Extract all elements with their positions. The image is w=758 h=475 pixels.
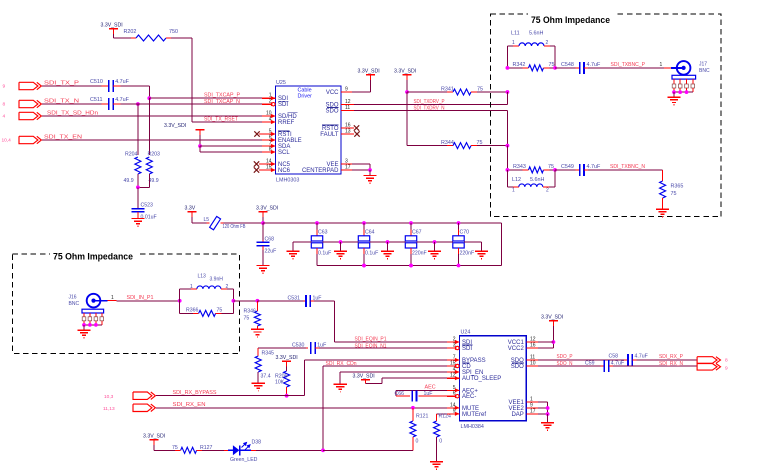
wire (538, 341, 553, 343)
svg-text:L13: L13 (198, 274, 207, 280)
svg-text:RREF: RREF (278, 120, 295, 126)
wire (171, 37, 192, 39)
pin 3 SDI-bar (447, 347, 460, 349)
svg-text:220nF: 220nF (412, 251, 427, 257)
svg-text:R343: R343 (513, 164, 526, 170)
pin 6 ENABLE (262, 139, 276, 141)
ground (131, 218, 144, 220)
svg-text:R346: R346 (244, 309, 257, 315)
capacitor C511 (102, 103, 109, 105)
svg-text:C523: C523 (141, 203, 154, 209)
svg-text:75: 75 (217, 308, 223, 314)
wire (224, 222, 264, 224)
svg-text:0.1uF: 0.1uF (365, 251, 378, 257)
ground (656, 208, 669, 210)
wire (588, 169, 663, 171)
svg-text:C510: C510 (90, 79, 103, 85)
wire (636, 359, 697, 361)
pin 11 SDO-bar (341, 110, 354, 112)
pin 3 VEE (341, 163, 352, 165)
svg-text:D38: D38 (252, 439, 262, 445)
svg-text:SDI_RX_P: SDI_RX_P (659, 354, 683, 360)
node rail C64 (362, 221, 366, 225)
resistor R124 0 ohm (437, 413, 447, 415)
pin 12 SDO (341, 104, 354, 106)
svg-text:SDI_RX_EN: SDI_RX_EN (173, 402, 206, 408)
svg-text:3: 3 (453, 343, 456, 349)
resistor R344 (407, 145, 447, 147)
svg-text:17: 17 (345, 165, 351, 171)
svg-text:0: 0 (416, 439, 419, 445)
wire (354, 104, 507, 106)
wire (538, 365, 600, 367)
capacitor C68 22uF (262, 223, 264, 240)
svg-text:C64: C64 (365, 230, 375, 236)
node R343 right (553, 168, 557, 172)
svg-text:49.9: 49.9 (149, 178, 159, 184)
svg-text:DAP: DAP (511, 412, 523, 418)
svg-text:13: 13 (345, 129, 351, 135)
node VCC1 (552, 340, 556, 344)
svg-text:3.3V_SDI: 3.3V_SDI (358, 69, 380, 75)
resistor R366 (179, 301, 181, 314)
pin 9 VCC (341, 91, 354, 93)
pin 4 RREF (262, 121, 276, 123)
ground rail start (292, 242, 294, 251)
svg-text:2: 2 (546, 188, 549, 194)
svg-text:4.7uF: 4.7uF (115, 79, 129, 85)
svg-text:J17: J17 (699, 62, 707, 68)
node rail C70 (457, 221, 461, 225)
J16 shield (82, 309, 104, 313)
svg-text:LMH0303: LMH0303 (276, 178, 299, 184)
svg-text:U25: U25 (276, 80, 286, 86)
node rail C67 (409, 221, 413, 225)
pin 8 SCL (262, 151, 276, 153)
node rail bottom (409, 264, 413, 268)
ground (667, 96, 680, 98)
pin 14 MUTE (447, 407, 460, 409)
svg-text:SDO: SDO (325, 109, 338, 115)
node TXDRV_P (506, 90, 510, 94)
node DAP (546, 412, 550, 416)
ground (256, 265, 269, 267)
svg-text:4: 4 (3, 114, 6, 120)
node R343 left (506, 168, 510, 172)
svg-text:220nF: 220nF (460, 251, 475, 257)
svg-text:BNC: BNC (69, 301, 80, 307)
node rail (261, 221, 265, 225)
node ground bus (386, 240, 390, 244)
svg-text:AEC-: AEC- (462, 394, 476, 400)
ground (252, 382, 265, 384)
svg-text:U24: U24 (461, 330, 471, 336)
svg-text:9: 9 (453, 408, 456, 414)
wire (114, 37, 132, 39)
node VEE (368, 168, 372, 172)
pin 15 CD-bar (447, 365, 460, 367)
svg-text:0: 0 (439, 439, 442, 445)
svg-text:12: 12 (450, 373, 456, 379)
pin 4 SPI_EN (447, 371, 460, 373)
wire rail (263, 222, 502, 224)
wire (156, 407, 447, 409)
capacitor C66 1uF (AEC) (396, 389, 447, 391)
capacitor C63 0.1uF (316, 223, 318, 230)
node rail bottom (362, 264, 366, 268)
svg-text:C66: C66 (395, 391, 405, 397)
node ground bus (339, 240, 343, 244)
svg-text:4.7uF: 4.7uF (635, 354, 648, 360)
svg-text:SDI_TXBNC_N: SDI_TXBNC_N (610, 164, 645, 170)
svg-text:AUTO_SLEEP: AUTO_SLEEP (462, 376, 501, 382)
svg-text:SCL: SCL (278, 150, 290, 156)
svg-text:Driver: Driver (298, 94, 313, 100)
wire (323, 365, 447, 367)
resistor R341 (407, 91, 447, 93)
svg-text:3.3V_SDI: 3.3V_SDI (143, 433, 165, 439)
wire (121, 85, 150, 87)
LED D38 Green_LED (224, 449, 228, 451)
svg-text:CENTERPAD: CENTERPAD (302, 168, 339, 174)
svg-text:15: 15 (266, 165, 272, 171)
node R divider (136, 185, 140, 189)
resistor R346 75 to ground (256, 301, 258, 311)
svg-text:4.7uF: 4.7uF (115, 97, 129, 103)
svg-text:SDI_TXCAP_P: SDI_TXCAP_P (204, 93, 240, 99)
pin 15 NC6 (259, 169, 276, 171)
ground (77, 329, 90, 331)
svg-text:R365: R365 (671, 184, 684, 190)
pin 2 SDI (447, 341, 460, 343)
resistor R203 (148, 98, 150, 155)
wire (200, 145, 262, 147)
wire (233, 300, 257, 302)
svg-text:750: 750 (169, 29, 178, 35)
wire (354, 110, 507, 112)
svg-text:R203: R203 (148, 152, 161, 158)
svg-text:3.3V_SDI: 3.3V_SDI (164, 123, 186, 129)
node MUTE/R121 (411, 406, 415, 410)
node L13 right (232, 299, 236, 303)
node SDI_TXCAP_P (147, 96, 151, 100)
capacitor C549 (555, 169, 576, 171)
svg-text:R121: R121 (416, 414, 429, 420)
pin 9 MUTEref (447, 413, 460, 415)
svg-text:4.7uF: 4.7uF (587, 164, 601, 170)
wire VEE to ground (352, 163, 370, 165)
svg-text:3.3V_SDI: 3.3V_SDI (353, 373, 375, 379)
svg-text:J16: J16 (69, 295, 77, 301)
svg-text:C548: C548 (561, 62, 574, 68)
svg-text:75: 75 (671, 191, 677, 197)
svg-text:3.3V_SDI: 3.3V_SDI (541, 315, 563, 321)
node R346 (256, 299, 260, 303)
wire (323, 449, 413, 451)
ground bus end (481, 242, 483, 251)
resistor R206 10K (284, 371, 290, 387)
wire (149, 97, 262, 99)
svg-text:SDI: SDI (462, 346, 472, 352)
wire (42, 85, 102, 87)
svg-text:3.9nH: 3.9nH (210, 277, 224, 283)
capacitor C67 220nF (410, 223, 412, 230)
svg-text:0.1uF: 0.1uF (318, 251, 331, 257)
svg-text:75: 75 (172, 445, 178, 451)
node L11/R342 right (553, 66, 557, 70)
svg-text:C63: C63 (318, 230, 328, 236)
svg-text:R124: R124 (439, 414, 452, 420)
svg-text:L5: L5 (204, 217, 210, 223)
75 Ohm Impedance output network boundary (490, 14, 721, 217)
svg-text:SDO: SDO (511, 364, 524, 370)
ground (251, 328, 264, 330)
pin 12 AUTO_SLEEP (447, 377, 460, 379)
svg-text:9: 9 (725, 365, 728, 371)
node TXDRV_N (506, 144, 510, 148)
capacitor C510 (102, 85, 109, 87)
pin 12 VCC1 (526, 341, 538, 343)
wire (588, 67, 664, 69)
capacitor C523 (137, 187, 139, 208)
wire (406, 92, 408, 146)
svg-text:C58: C58 (609, 354, 619, 360)
svg-text:11,13: 11,13 (103, 406, 115, 412)
svg-text:SDI_TXBNC_P: SDI_TXBNC_P (611, 62, 646, 68)
svg-text:22uF: 22uF (265, 249, 277, 255)
wire SPI_EN to ground (340, 371, 447, 373)
wire (117, 300, 180, 302)
ground (541, 422, 554, 424)
pin 1 VEE1 (526, 401, 538, 403)
svg-text:SPI_EN: SPI_EN (462, 370, 483, 376)
svg-text:3.3V_SDI: 3.3V_SDI (276, 355, 298, 361)
svg-text:SDO_P: SDO_P (557, 354, 573, 360)
pin 2 SDI-bar (262, 103, 276, 105)
svg-text:5.6nH: 5.6nH (530, 177, 544, 183)
svg-text:75 Ohm Impedance: 75 Ohm Impedance (53, 251, 133, 261)
wire (319, 347, 447, 349)
ground (434, 242, 436, 251)
svg-text:2: 2 (546, 40, 549, 46)
wire (257, 300, 303, 302)
wire (506, 146, 508, 170)
wire (42, 103, 102, 105)
svg-text:10K: 10K (275, 380, 285, 386)
svg-text:11: 11 (345, 105, 350, 111)
svg-text:C531: C531 (288, 296, 301, 302)
svg-text:49.9: 49.9 (124, 178, 134, 184)
svg-text:1: 1 (512, 40, 515, 46)
capacitor C64 0.1uF (363, 223, 365, 230)
svg-text:C549: C549 (561, 164, 574, 170)
pin 5 AEC+ (447, 389, 460, 391)
svg-text:R344: R344 (441, 140, 454, 146)
svg-text:SDI_EQIN_P1: SDI_EQIN_P1 (355, 337, 387, 343)
svg-text:C67: C67 (412, 230, 422, 236)
svg-text:R342: R342 (513, 62, 526, 68)
wire (613, 365, 697, 367)
svg-text:3.3V_SDI: 3.3V_SDI (101, 23, 123, 29)
svg-text:6: 6 (453, 391, 456, 397)
svg-text:4: 4 (453, 367, 456, 373)
wire (314, 300, 334, 302)
resistor R345 37.4 (257, 348, 259, 356)
svg-text:VCC2: VCC2 (508, 346, 525, 352)
svg-text:17: 17 (530, 409, 536, 415)
svg-text:75: 75 (548, 164, 554, 170)
svg-text:BNC: BNC (699, 68, 710, 74)
pin 7 SDA (262, 145, 276, 147)
J17 shield (672, 75, 696, 79)
svg-text:0.01uF: 0.01uF (141, 215, 157, 221)
pin 11 SDO (526, 359, 538, 361)
resistor R204 (137, 104, 139, 155)
svg-text:10,4: 10,4 (2, 138, 12, 144)
wire (192, 222, 207, 224)
pin 7 BYPASS (447, 359, 460, 361)
wire (154, 449, 175, 451)
wire (202, 449, 224, 451)
wire (42, 115, 262, 117)
node bias (405, 90, 409, 94)
node BYPASS (285, 394, 289, 398)
node L13 left (178, 299, 182, 303)
wire ground bus segments (305, 241, 311, 243)
node VEE2 (546, 406, 550, 410)
svg-text:37.4: 37.4 (261, 374, 271, 380)
node SDI_TXCAP_N (136, 102, 140, 106)
svg-text:LMH0384: LMH0384 (461, 424, 484, 430)
svg-text:9: 9 (345, 87, 348, 93)
svg-text:R366: R366 (186, 308, 199, 314)
svg-text:C59: C59 (585, 361, 595, 367)
ground (387, 242, 389, 251)
pin 14 NC5 (259, 163, 276, 165)
wire rail bottom (317, 265, 502, 267)
svg-text:10,3: 10,3 (104, 394, 114, 400)
svg-text:L12: L12 (512, 177, 521, 183)
pin 16 VCC2 (526, 347, 538, 349)
wire (42, 139, 262, 141)
resistor R121 0 ohm (412, 408, 414, 421)
wire (192, 121, 262, 123)
svg-text:Green_LED: Green_LED (230, 457, 258, 463)
svg-text:SDI_RX_BYPASS: SDI_RX_BYPASS (173, 390, 217, 396)
svg-text:8: 8 (725, 358, 728, 364)
wire (256, 449, 323, 451)
ground (430, 461, 443, 463)
svg-text:L11: L11 (511, 31, 520, 37)
svg-text:1: 1 (512, 188, 515, 194)
resistor R365 (662, 170, 664, 181)
pin 17 DAP (526, 413, 538, 415)
svg-text:10: 10 (530, 361, 536, 367)
svg-text:R345: R345 (262, 351, 275, 357)
wire VEE to ground (538, 401, 548, 403)
op-amp U25 LMH0303 cable driver (276, 86, 342, 174)
svg-text:AEC: AEC (425, 384, 436, 390)
pin 10 SD/HD (262, 115, 276, 117)
capacitor C530 (258, 347, 306, 349)
capacitor C548 (555, 67, 576, 69)
pin 10 SDO-bar (526, 365, 538, 367)
wire rail right leg (501, 223, 503, 266)
svg-text:SDI_IN_P1: SDI_IN_P1 (127, 295, 154, 301)
svg-text:120 Ohm FB: 120 Ohm FB (223, 224, 247, 230)
svg-text:16: 16 (530, 343, 536, 349)
node L11/R342 left (506, 66, 510, 70)
svg-text:MUTEref: MUTEref (462, 412, 486, 418)
svg-text:1: 1 (111, 295, 114, 301)
capacitor C531 (304, 300, 307, 302)
svg-text:R204: R204 (125, 152, 138, 158)
pin 1 SDI (262, 97, 276, 99)
node SDA (198, 144, 202, 148)
port SDI_RX_N out (697, 364, 717, 371)
svg-text:NC6: NC6 (278, 168, 291, 174)
wire (352, 91, 371, 93)
svg-text:1: 1 (660, 62, 663, 68)
svg-text:3.3V: 3.3V (185, 206, 196, 212)
node rail C63 (315, 221, 319, 225)
wire (538, 359, 624, 361)
svg-text:8: 8 (3, 102, 6, 108)
pin 6 AEC- (447, 395, 460, 397)
svg-text:75 Ohm Impedance: 75 Ohm Impedance (531, 15, 610, 25)
ground (363, 175, 376, 177)
ground (340, 242, 342, 251)
wire ground bus (293, 241, 305, 243)
svg-text:FAULT: FAULT (320, 132, 339, 138)
wire (199, 146, 201, 152)
pin 9 VEE2 (526, 407, 538, 409)
svg-text:75: 75 (244, 316, 250, 322)
svg-text:C530: C530 (292, 343, 305, 349)
wire (366, 382, 383, 384)
svg-text:SDI: SDI (278, 102, 288, 108)
svg-text:C70: C70 (460, 230, 470, 236)
wire (121, 103, 263, 105)
svg-text:3.3V_SDI: 3.3V_SDI (256, 206, 278, 212)
ground (334, 383, 347, 385)
svg-text:5.6nH: 5.6nH (529, 31, 543, 37)
port SDI_RX_P out (697, 357, 717, 364)
svg-text:9: 9 (3, 84, 6, 90)
svg-text:8: 8 (269, 147, 272, 153)
75 Ohm Impedance input network boundary (13, 254, 240, 353)
pin 13 FAULT (341, 133, 354, 135)
svg-text:C511: C511 (90, 97, 103, 103)
pin 5 RSTI (259, 133, 276, 135)
svg-text:R341: R341 (441, 87, 454, 93)
pin 17 CENTERPAD (341, 169, 352, 171)
pin 16 RSTO (341, 127, 354, 129)
svg-text:3.3V_SDI: 3.3V_SDI (394, 69, 416, 75)
capacitor C70 220nF (458, 223, 460, 230)
svg-text:R202: R202 (124, 29, 137, 35)
op-amp U24 LMH0384 equalizer (460, 336, 527, 421)
node ground bus (433, 240, 437, 244)
node CDn/LED (321, 448, 325, 452)
svg-text:SDI_RX_N: SDI_RX_N (659, 361, 683, 367)
svg-text:4: 4 (269, 117, 272, 123)
node rail bottom (362, 264, 366, 268)
svg-text:4.7uF: 4.7uF (587, 62, 601, 68)
svg-text:VCC: VCC (326, 90, 339, 96)
wire (156, 395, 287, 397)
